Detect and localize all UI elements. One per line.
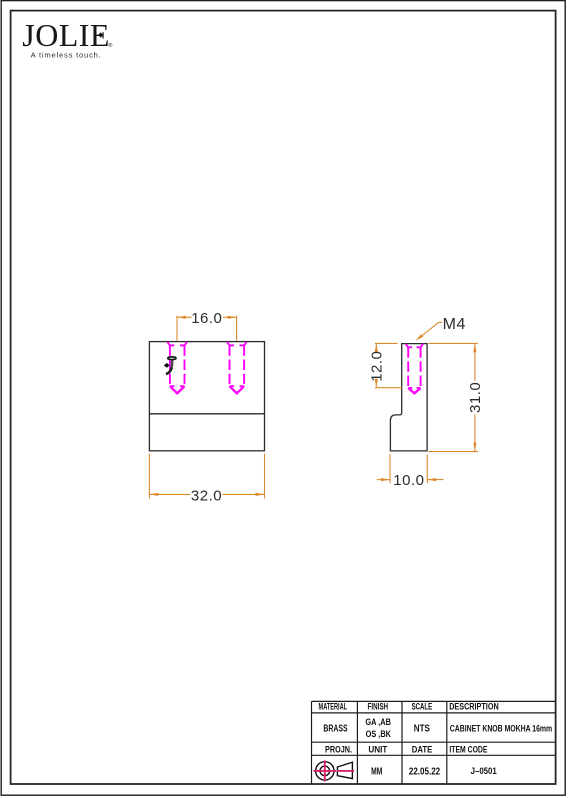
svg-text:DESCRIPTION: DESCRIPTION — [449, 702, 499, 712]
svg-text:OS ,BK: OS ,BK — [366, 729, 392, 739]
svg-text:J–0501: J–0501 — [471, 766, 497, 776]
svg-text:MM: MM — [371, 767, 382, 778]
svg-text:31.0: 31.0 — [467, 382, 484, 413]
svg-text:UNIT: UNIT — [368, 744, 387, 754]
svg-text:MATERIAL: MATERIAL — [319, 702, 348, 712]
svg-text:12.0: 12.0 — [368, 351, 385, 382]
svg-text:22.05.22: 22.05.22 — [409, 767, 441, 778]
svg-text:GA ,AB: GA ,AB — [365, 717, 391, 727]
svg-text:10.0: 10.0 — [393, 472, 424, 489]
svg-text:CABINET KNOB MOKHA 16mm: CABINET KNOB MOKHA 16mm — [450, 723, 552, 733]
svg-text:JOLIE: JOLIE — [22, 17, 110, 53]
svg-text:®: ® — [108, 42, 113, 49]
svg-text:16.0: 16.0 — [191, 310, 222, 327]
svg-text:BRASS: BRASS — [323, 724, 347, 735]
svg-text:M4: M4 — [443, 316, 466, 333]
svg-text:A timeless touch.: A timeless touch. — [31, 51, 102, 60]
svg-text:DATE: DATE — [412, 744, 433, 754]
svg-text:SCALE: SCALE — [412, 702, 433, 712]
svg-text:NTS: NTS — [414, 724, 430, 735]
svg-text:ITEM CODE: ITEM CODE — [449, 744, 487, 754]
svg-text:FINISH: FINISH — [368, 702, 389, 712]
svg-text:PROJN.: PROJN. — [325, 744, 352, 754]
svg-text:32.0: 32.0 — [191, 488, 222, 505]
